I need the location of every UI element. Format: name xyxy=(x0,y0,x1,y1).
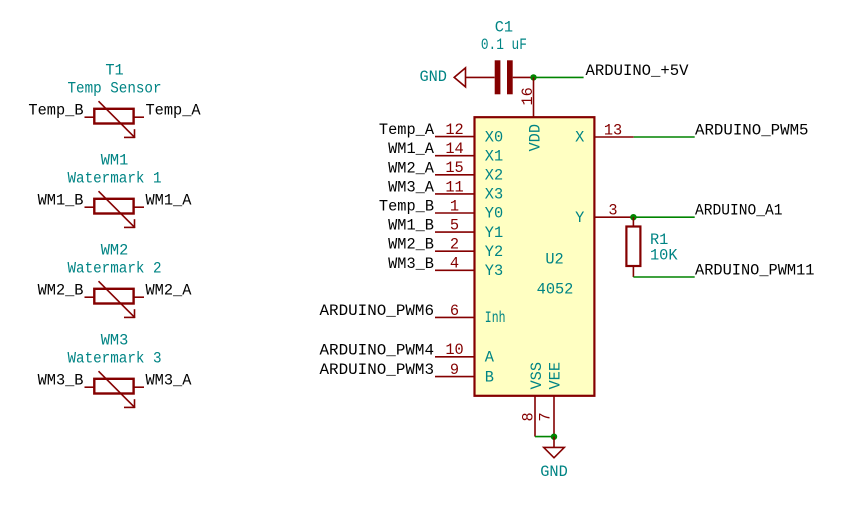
pin 10 (A) of U2 xyxy=(435,356,475,358)
wire VSS elbow to junction xyxy=(535,436,554,438)
svg-text:VEE: VEE xyxy=(546,362,564,390)
svg-text:15: 15 xyxy=(445,159,463,177)
svg-text:WM3_A: WM3_A xyxy=(388,178,435,196)
svg-text:WM1_B: WM1_B xyxy=(388,217,434,235)
svg-text:WM2_A: WM2_A xyxy=(146,282,193,300)
svg-text:1: 1 xyxy=(450,197,459,215)
wire C1 to +5V junction xyxy=(513,76,534,78)
svg-text:VDD: VDD xyxy=(527,124,545,152)
svg-text:8: 8 xyxy=(519,412,537,421)
svg-text:ARDUINO_+5V: ARDUINO_+5V xyxy=(586,62,690,80)
svg-text:A: A xyxy=(485,349,495,367)
variable-resistor arrow of WM2 xyxy=(99,281,136,318)
wire R1 to ARDUINO_PWM11 xyxy=(633,276,694,278)
svg-text:ARDUINO_PWM3: ARDUINO_PWM3 xyxy=(320,361,435,379)
wire stub left of WM1 xyxy=(85,206,96,208)
svg-text:WM2_A: WM2_A xyxy=(388,159,435,177)
wire R1 bottom elbow xyxy=(632,266,634,277)
svg-text:VSS: VSS xyxy=(528,362,546,390)
pin 3 (Y) of U2 xyxy=(594,216,633,218)
pin 9 (B) of U2 xyxy=(435,376,475,378)
svg-text:Y: Y xyxy=(575,209,584,227)
variable-resistor arrow of T1 xyxy=(99,101,136,138)
svg-text:Y2: Y2 xyxy=(485,243,503,261)
pin 8 (VSS) of U2 xyxy=(534,396,536,437)
svg-text:C1: C1 xyxy=(495,19,513,37)
svg-text:WM2_B: WM2_B xyxy=(388,236,434,254)
pin 2 (Y2) of U2 xyxy=(435,250,475,252)
svg-text:2: 2 xyxy=(450,236,459,254)
svg-text:GND: GND xyxy=(540,463,568,481)
svg-text:Watermark 2: Watermark 2 xyxy=(68,260,162,278)
wire junction to GND symbol xyxy=(553,437,555,448)
pin 16 (VDD) of U2 xyxy=(533,77,535,117)
pin 11 (X3) of U2 xyxy=(435,193,475,195)
svg-text:X0: X0 xyxy=(485,128,503,146)
svg-text:10: 10 xyxy=(445,341,463,359)
svg-text:Temp_A: Temp_A xyxy=(146,102,202,120)
svg-text:Inh: Inh xyxy=(485,309,506,327)
svg-text:10K: 10K xyxy=(650,246,678,264)
wire stub left of WM3 xyxy=(85,386,96,388)
svg-text:ARDUINO_PWM6: ARDUINO_PWM6 xyxy=(320,302,435,320)
wire pin3 to ARDUINO_A1 xyxy=(633,216,694,218)
svg-text:Temp_A: Temp_A xyxy=(379,121,435,139)
resistor body WM2 xyxy=(94,289,133,304)
svg-text:9: 9 xyxy=(450,361,459,379)
svg-text:WM3_B: WM3_B xyxy=(38,372,84,390)
wire junction to ARDUINO_+5V xyxy=(534,76,584,78)
wire stub left of WM2 xyxy=(85,296,96,298)
pin 12 (X0) of U2 xyxy=(435,136,475,138)
svg-text:ARDUINO_PWM11: ARDUINO_PWM11 xyxy=(695,261,815,279)
svg-text:5: 5 xyxy=(450,217,459,235)
pin 15 (X2) of U2 xyxy=(435,174,475,176)
svg-text:B: B xyxy=(485,368,494,386)
svg-text:WM3_B: WM3_B xyxy=(388,255,434,273)
wire stub right of T1 xyxy=(133,116,144,118)
pin 5 (Y1) of U2 xyxy=(435,231,475,233)
svg-text:ARDUINO_A1: ARDUINO_A1 xyxy=(695,202,783,220)
resistor body WM3 xyxy=(94,379,133,394)
svg-text:Y0: Y0 xyxy=(485,205,503,223)
svg-text:Temp_B: Temp_B xyxy=(28,102,83,120)
svg-text:0.1 uF: 0.1 uF xyxy=(481,36,527,54)
svg-text:GND: GND xyxy=(419,68,447,86)
svg-text:13: 13 xyxy=(604,122,622,140)
junction node at pin 3 / R1 xyxy=(630,214,636,220)
svg-text:WM2: WM2 xyxy=(101,242,129,260)
svg-text:ARDUINO_PWM5: ARDUINO_PWM5 xyxy=(695,122,809,140)
IC U2 4052 body xyxy=(475,117,595,396)
svg-text:Temp_B: Temp_B xyxy=(379,198,434,216)
svg-text:Temp Sensor: Temp Sensor xyxy=(68,80,162,98)
svg-text:WM1_A: WM1_A xyxy=(388,140,435,158)
junction node at +5V / pin 16 xyxy=(530,74,536,80)
svg-text:WM3_A: WM3_A xyxy=(146,372,193,390)
variable-resistor arrow of WM3 xyxy=(99,371,136,408)
svg-text:X1: X1 xyxy=(485,147,503,165)
pin 4 (Y3) of U2 xyxy=(435,269,475,271)
svg-text:7: 7 xyxy=(536,412,554,421)
svg-text:14: 14 xyxy=(445,140,463,158)
wire GND arrow to C1 xyxy=(466,76,495,78)
svg-text:Watermark 1: Watermark 1 xyxy=(68,170,162,188)
svg-text:WM2_B: WM2_B xyxy=(38,282,84,300)
pin 13 (X) of U2 xyxy=(594,136,633,138)
svg-text:3: 3 xyxy=(608,202,617,220)
svg-text:ARDUINO_PWM4: ARDUINO_PWM4 xyxy=(320,341,435,359)
svg-text:WM3: WM3 xyxy=(101,332,129,350)
pin 7 (VEE) of U2 xyxy=(553,396,555,437)
svg-text:4: 4 xyxy=(450,255,459,273)
svg-text:16: 16 xyxy=(519,87,537,105)
resistor body T1 xyxy=(94,109,133,124)
svg-text:Y1: Y1 xyxy=(485,224,503,242)
resistor R1 body xyxy=(626,227,640,267)
capacitor C1 left plate xyxy=(495,60,501,94)
pin 6 (Inh) of U2 xyxy=(435,316,475,318)
svg-text:WM1_A: WM1_A xyxy=(146,192,193,210)
svg-text:WM1: WM1 xyxy=(101,152,129,170)
junction node VSS/VEE/GND xyxy=(551,434,557,440)
wire stub right of WM1 xyxy=(133,206,144,208)
svg-text:X: X xyxy=(575,129,584,147)
pin 1 (Y0) of U2 xyxy=(435,212,475,214)
power symbol GND arrow xyxy=(454,68,465,87)
svg-text:12: 12 xyxy=(445,121,463,139)
svg-text:6: 6 xyxy=(450,302,459,320)
wire pin13 to ARDUINO_PWM5 xyxy=(634,136,695,138)
capacitor C1 right plate xyxy=(507,60,513,94)
pin 14 (X1) of U2 xyxy=(435,155,475,157)
svg-text:WM1_B: WM1_B xyxy=(38,192,84,210)
resistor body WM1 xyxy=(94,199,133,214)
svg-text:T1: T1 xyxy=(105,62,123,80)
svg-text:X2: X2 xyxy=(485,167,503,185)
variable-resistor arrow of WM1 xyxy=(99,191,136,228)
svg-text:Watermark 3: Watermark 3 xyxy=(68,350,162,368)
wire stub right of WM2 xyxy=(133,296,144,298)
wire stub left of T1 xyxy=(85,116,96,118)
svg-text:Y3: Y3 xyxy=(485,262,503,280)
svg-text:4052: 4052 xyxy=(537,281,574,299)
svg-text:U2: U2 xyxy=(545,251,563,269)
wire junction to R1 top xyxy=(632,217,634,226)
wire stub right of WM3 xyxy=(133,386,144,388)
svg-text:11: 11 xyxy=(445,178,463,196)
svg-text:X3: X3 xyxy=(485,186,503,204)
power symbol GND (triangle) xyxy=(544,447,565,457)
